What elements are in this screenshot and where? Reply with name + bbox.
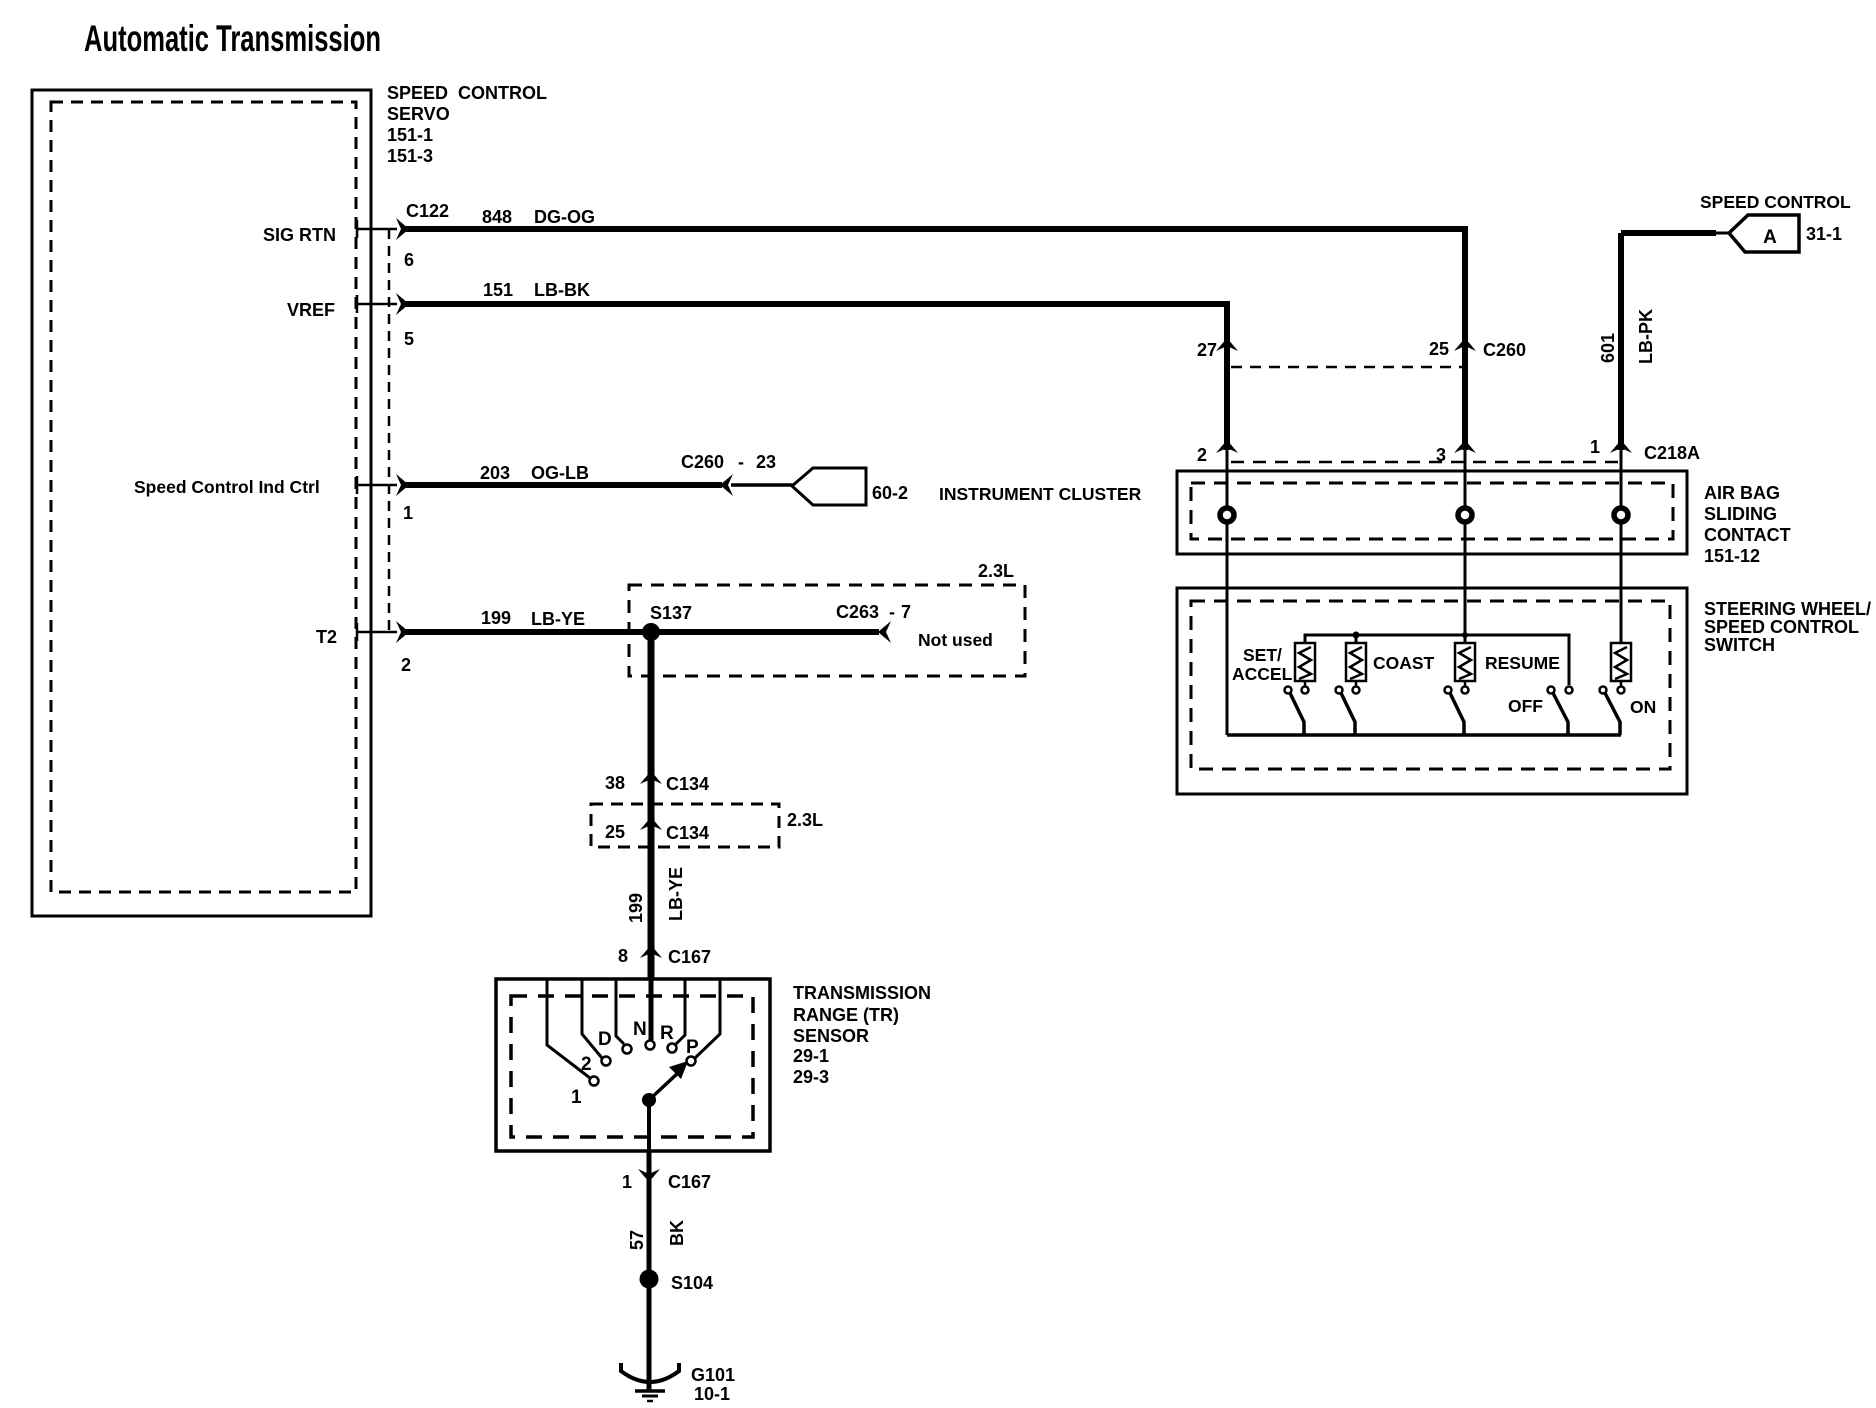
connector C134 pin 38 arrow (640, 771, 662, 784)
wire ring3 down to on coil (1620, 448, 1623, 643)
switch COAST pivot circle (1336, 687, 1343, 694)
TR label D (598, 1029, 612, 1050)
svg-text:C260: C260 (681, 452, 724, 472)
label 2 (401, 655, 411, 675)
label 1 C218A (1590, 437, 1700, 463)
svg-text:151: 151 (483, 280, 513, 300)
wire to instrument cluster connector (731, 483, 793, 487)
svg-text:7: 7 (901, 602, 911, 622)
svg-text:TRANSMISSION: TRANSMISSION (793, 983, 931, 1003)
svg-text:G101: G101 (691, 1365, 735, 1385)
pin 2 arrow (396, 621, 409, 643)
TR prong 2 (582, 979, 602, 1058)
svg-text:2.3L: 2.3L (978, 561, 1014, 581)
svg-text:P: P (686, 1037, 699, 1058)
speed control servo label (387, 83, 547, 166)
wire S104 to ground (647, 1279, 652, 1391)
connector C134 pin 25 arrow (640, 817, 662, 830)
label 31-1 (1806, 224, 1842, 244)
TR label P (686, 1037, 699, 1058)
svg-text:INSTRUMENT CLUSTER: INSTRUMENT CLUSTER (939, 484, 1142, 504)
switch RESUME pivot circle (1445, 687, 1452, 694)
connector arrow 25 C260 (1454, 338, 1476, 351)
junction dot resume wire on bus (1462, 632, 1468, 638)
wire 848 vertical drop (1462, 229, 1468, 450)
TR terminal N circle (646, 1041, 655, 1050)
TR terminal D circle (623, 1045, 632, 1054)
wire 151 vertical drop (1224, 304, 1230, 450)
svg-text:OG-LB: OG-LB (531, 463, 589, 483)
pin VREF label (287, 300, 335, 320)
label 199 vertical (626, 893, 646, 923)
wire speed control stub (1621, 230, 1729, 236)
pin Ind Ctrl stub (356, 476, 397, 494)
svg-text:DG-OG: DG-OG (534, 207, 595, 227)
ground G101 symbol (621, 1363, 679, 1401)
svg-text:-: - (889, 602, 895, 622)
svg-text:A: A (1763, 227, 1777, 248)
dashed connector line C218A (1231, 461, 1618, 464)
coil COAST (1346, 643, 1366, 686)
svg-text:S137: S137 (650, 603, 692, 623)
svg-text:ACCEL: ACCEL (1232, 664, 1293, 684)
steering wheel switch box outer (1177, 588, 1687, 794)
connector A flag (1729, 215, 1799, 252)
svg-text:151-12: 151-12 (1704, 546, 1760, 566)
pin T2 label (316, 627, 337, 647)
speed control servo box outer (32, 90, 371, 916)
svg-text:23: 23 (756, 452, 776, 472)
label INSTRUMENT CLUSTER (939, 484, 1142, 504)
label 601 vertical (1598, 333, 1618, 363)
TR terminal 1 circle (590, 1077, 599, 1086)
svg-text:C263: C263 (836, 602, 879, 622)
label 848 DG-OG (482, 207, 595, 227)
sliding contact ring 3 (1614, 508, 1628, 522)
wire coast coil top (1355, 635, 1358, 643)
switch ON contact circle (1618, 687, 1625, 694)
connector arrow 3 (1454, 440, 1476, 453)
dashed connector line C260 (1231, 366, 1462, 369)
svg-text:C122: C122 (406, 201, 449, 221)
TR rotor wire down (647, 1100, 651, 1151)
pin T2 stub (356, 623, 397, 641)
svg-text:SPEED CONTROL: SPEED CONTROL (1700, 192, 1851, 212)
svg-text:LB-YE: LB-YE (531, 609, 585, 629)
svg-text:848: 848 (482, 207, 512, 227)
svg-text:D: D (598, 1029, 612, 1050)
splice S137 dot (642, 623, 660, 641)
svg-text:STEERING WHEEL/: STEERING WHEEL/ (1704, 599, 1871, 619)
label 6 (404, 250, 414, 270)
label 151 LB-BK (483, 280, 590, 300)
svg-text:31-1: 31-1 (1806, 224, 1842, 244)
label OFF (1508, 696, 1543, 716)
label 27 (1197, 340, 1217, 360)
wire ring2 down to resume coil (1464, 448, 1467, 643)
svg-text:VREF: VREF (287, 300, 335, 320)
svg-text:C260: C260 (1483, 340, 1526, 360)
label S104 (671, 1273, 713, 1293)
label S137 (650, 603, 692, 623)
svg-text:1: 1 (1590, 437, 1600, 457)
label 60-2 (872, 483, 908, 503)
label 5 (404, 329, 414, 349)
svg-text:T2: T2 (316, 627, 337, 647)
switch RESUME blade (1450, 693, 1464, 735)
label C122 (406, 201, 449, 221)
TR sensor label (793, 983, 931, 1087)
TR terminal P circle (687, 1057, 696, 1066)
svg-text:OFF: OFF (1508, 696, 1543, 716)
wire 601 vertical (1618, 233, 1624, 450)
svg-text:C218A: C218A (1644, 443, 1700, 463)
switch COAST contact circle (1353, 687, 1360, 694)
svg-text:2: 2 (581, 1054, 592, 1075)
connector C167 pin 1 arrow down (638, 1169, 660, 1182)
wire ring1 down to bus (1226, 448, 1229, 735)
TR wire N down (649, 979, 654, 1040)
TR prong P (695, 979, 720, 1058)
wire 151 LB-BK horizontal (406, 301, 1230, 307)
bottom bus wire (1227, 733, 1621, 737)
label 57 vertical (627, 1230, 647, 1250)
svg-text:1: 1 (403, 503, 413, 523)
svg-text:SENSOR: SENSOR (793, 1026, 869, 1046)
svg-text:29-1: 29-1 (793, 1046, 829, 1066)
svg-text:LB-YE: LB-YE (666, 867, 686, 921)
switch SET/ACCEL pivot circle (1285, 687, 1292, 694)
svg-text:25: 25 (1429, 339, 1449, 359)
label 8 C167 (618, 946, 711, 967)
TR prong D (616, 979, 624, 1044)
label RESUME (1485, 653, 1560, 673)
wire 199 LB-YE horizontal (406, 629, 651, 635)
switch SET/ACCEL contact circle (1302, 687, 1309, 694)
2.3L dashed box around C134 (591, 804, 779, 847)
svg-text:6: 6 (404, 250, 414, 270)
label C260 - 23 (681, 452, 776, 472)
coil SET/ACCEL (1295, 643, 1315, 686)
svg-text:SPEED CONTROL: SPEED CONTROL (1704, 617, 1859, 637)
svg-text:C134: C134 (666, 823, 709, 843)
label 2 (1197, 445, 1207, 465)
wire below TR sensor (647, 1151, 652, 1279)
connector C260-23 left arrow (720, 474, 733, 496)
air bag sliding contact box inner dashed (1191, 483, 1673, 539)
svg-text:601: 601 (1598, 333, 1618, 363)
svg-text:SERVO: SERVO (387, 104, 450, 124)
label BK vertical (667, 1220, 687, 1246)
label ON (1630, 697, 1656, 717)
air bag label (1704, 483, 1791, 566)
svg-text:5: 5 (404, 329, 414, 349)
svg-text:LB-PK: LB-PK (1636, 309, 1656, 364)
svg-text:1: 1 (571, 1087, 582, 1108)
label G101 10-1 (691, 1365, 735, 1404)
svg-text:199: 199 (626, 893, 646, 923)
sliding contact ring 1 (1220, 508, 1234, 522)
sliding contact ring 2 (1458, 508, 1472, 522)
wire 203 OG-LB (406, 482, 722, 488)
switch OFF pivot circle (1548, 687, 1555, 694)
svg-text:-: - (738, 452, 744, 472)
svg-text:CONTROL: CONTROL (458, 83, 547, 103)
label 2.3L top (978, 561, 1014, 581)
connector arrow 2 (1216, 440, 1238, 453)
svg-text:29-3: 29-3 (793, 1067, 829, 1087)
TR label 1 (571, 1087, 582, 1108)
label 1 C167 (622, 1172, 711, 1192)
svg-text:CONTACT: CONTACT (1704, 525, 1791, 545)
transmission range sensor box inner dashed (511, 996, 753, 1137)
pin Speed Control Ind Ctrl label (134, 477, 320, 497)
label 25 C134 (605, 822, 709, 843)
TR terminal R circle (668, 1044, 677, 1053)
connector arrow 27 (1216, 338, 1238, 351)
TR prong R (676, 979, 685, 1044)
switch SET/ACCEL blade (1290, 693, 1304, 735)
svg-text:SET/: SET/ (1243, 645, 1282, 665)
svg-text:SPEED: SPEED (387, 83, 448, 103)
svg-text:R: R (660, 1023, 674, 1044)
transmission range sensor box outer (496, 979, 770, 1151)
svg-text:2: 2 (1197, 445, 1207, 465)
label SET/ACCEL (1232, 645, 1293, 684)
connector flag 60-2 instrument cluster (792, 468, 866, 505)
svg-text:57: 57 (627, 1230, 647, 1250)
svg-text:COAST: COAST (1373, 653, 1435, 673)
svg-text:38: 38 (605, 773, 625, 793)
label A (1763, 227, 1777, 248)
label C263 - 7 (836, 602, 911, 622)
svg-text:199: 199 (481, 608, 511, 628)
junction dot coast top (1353, 632, 1360, 639)
coil RESUME (1455, 643, 1475, 686)
steering wheel switch box inner dashed (1191, 601, 1670, 769)
label 38 C134 (605, 773, 709, 794)
svg-text:8: 8 (618, 946, 628, 966)
svg-text:Speed Control Ind Ctrl: Speed Control Ind Ctrl (134, 477, 320, 497)
splice S104 dot (640, 1270, 659, 1289)
TR label N (633, 1019, 647, 1040)
svg-text:BK: BK (667, 1220, 687, 1246)
svg-text:151-1: 151-1 (387, 125, 433, 145)
svg-text:27: 27 (1197, 340, 1217, 360)
label 3 (1436, 445, 1446, 465)
switch COAST blade (1341, 693, 1355, 735)
2.3L dashed box around S137 (629, 585, 1025, 676)
label LB-YE vertical (666, 867, 686, 921)
pin SIG RTN label (263, 225, 336, 245)
svg-text:N: N (633, 1019, 647, 1040)
svg-text:Automatic Transmission: Automatic Transmission (84, 18, 381, 59)
svg-text:Not used: Not used (918, 630, 993, 650)
top bus wire (1305, 635, 1569, 685)
label 199 LB-YE (481, 608, 585, 629)
connector arrow 1 C218A (1610, 440, 1632, 453)
svg-text:C167: C167 (668, 947, 711, 967)
label LB-PK vertical (1636, 309, 1656, 364)
svg-text:LB-BK: LB-BK (534, 280, 590, 300)
svg-text:C134: C134 (666, 774, 709, 794)
label SPEED CONTROL top right (1700, 192, 1851, 212)
connector C263-7 left arrow (878, 621, 891, 643)
svg-text:1: 1 (622, 1172, 632, 1192)
pin 1 arrow (396, 474, 409, 496)
svg-text:C167: C167 (668, 1172, 711, 1192)
switch OFF contact circle (1566, 687, 1573, 694)
svg-text:SWITCH: SWITCH (1704, 635, 1775, 655)
switch ON pivot circle (1600, 687, 1607, 694)
svg-text:2.3L: 2.3L (787, 810, 823, 830)
speed control servo box inner dashed (51, 102, 356, 892)
label COAST (1373, 653, 1435, 673)
connector C122 dashed line (388, 229, 391, 632)
pin 6 arrow (396, 218, 409, 240)
svg-text:ON: ON (1630, 697, 1656, 717)
svg-text:RANGE (TR): RANGE (TR) (793, 1005, 899, 1025)
switch OFF blade (1553, 693, 1568, 735)
pin SIG RTN stub (356, 220, 397, 238)
svg-text:2: 2 (401, 655, 411, 675)
svg-text:25: 25 (605, 822, 625, 842)
TR prong 1 (547, 979, 590, 1078)
svg-text:RESUME: RESUME (1485, 653, 1560, 673)
svg-text:10-1: 10-1 (694, 1384, 730, 1404)
label 2.3L small box (787, 810, 823, 830)
TR rotor arrowhead (669, 1061, 688, 1079)
TR label R (660, 1023, 674, 1044)
switch ON blade (1605, 693, 1620, 735)
wire 199 vertical from S137 (648, 632, 655, 979)
pin 5 arrow (396, 293, 409, 315)
steering wheel label (1704, 599, 1871, 655)
svg-text:S104: S104 (671, 1273, 713, 1293)
air bag sliding contact box outer (1177, 471, 1687, 554)
TR rotor blade (649, 1072, 679, 1100)
label Not used (918, 630, 993, 650)
label 25 C260 (1429, 339, 1526, 360)
wire S137 to C263 (651, 629, 879, 635)
TR rotor pivot dot (642, 1093, 656, 1107)
coil ON (1611, 643, 1631, 686)
svg-text:151-3: 151-3 (387, 146, 433, 166)
label 203 OG-LB (480, 463, 589, 483)
label 1 (403, 503, 413, 523)
TR terminal 2 circle (602, 1057, 611, 1066)
svg-text:203: 203 (480, 463, 510, 483)
wire 848 DG-OG horizontal (406, 226, 1468, 232)
pin VREF stub (356, 295, 397, 313)
svg-text:SIG RTN: SIG RTN (263, 225, 336, 245)
switch RESUME contact circle (1462, 687, 1469, 694)
svg-text:60-2: 60-2 (872, 483, 908, 503)
connector C167 pin 8 arrow (640, 945, 662, 958)
title Automatic Transmission (84, 18, 381, 59)
svg-text:SLIDING: SLIDING (1704, 504, 1777, 524)
TR label 2 (581, 1054, 592, 1075)
svg-text:AIR BAG: AIR BAG (1704, 483, 1780, 503)
